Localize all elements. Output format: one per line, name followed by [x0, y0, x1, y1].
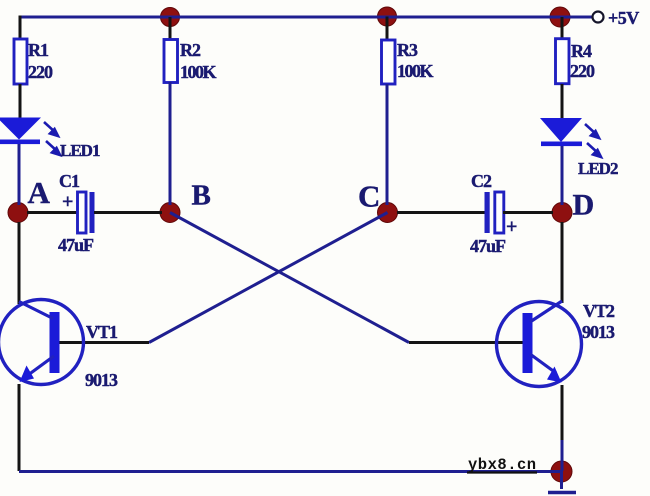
svg-text:220: 220 [570, 61, 595, 81]
wire rail to R1 [19, 16, 22, 40]
capacitor C2 negative plate [485, 192, 490, 233]
svg-text:C1: C1 [59, 171, 80, 191]
wire bottom ground rail [19, 470, 561, 473]
wire rail to R2 [169, 17, 172, 40]
wire LED2 to node D [561, 146, 564, 205]
node D dot [552, 203, 572, 223]
resistor R3 [382, 40, 396, 84]
svg-text:100K: 100K [180, 62, 217, 82]
LED1 emission arrow 1 [44, 122, 58, 136]
wire +5V stub [560, 16, 592, 19]
svg-text:B: B [192, 180, 211, 212]
svg-text:100K: 100K [397, 61, 434, 81]
ground symbol bar [548, 491, 576, 495]
transistor VT2 base bar [523, 313, 533, 373]
svg-text:+: + [62, 191, 73, 213]
wire node C to capacitor C2 [397, 211, 485, 214]
svg-text:+: + [506, 216, 517, 238]
resistor R2 [164, 40, 178, 83]
svg-text:9013: 9013 [582, 322, 615, 342]
node A dot [8, 203, 28, 223]
wire node A to capacitor C1 [27, 211, 77, 214]
capacitor C1 positive plate [78, 192, 87, 233]
node junction dot top-D [550, 7, 570, 27]
wire R1 to LED1 [19, 84, 22, 119]
svg-text:A: A [28, 175, 51, 210]
capacitor C1 negative plate [90, 192, 95, 233]
svg-text:220: 220 [28, 62, 53, 82]
capacitor C2 positive plate [495, 192, 504, 233]
node C dot [378, 203, 398, 223]
wire rail to R4 [561, 17, 564, 39]
LED2 cathode bar [541, 142, 582, 147]
wire node C cross to VT1 base diagonal [149, 213, 388, 343]
svg-text:LED1: LED1 [60, 141, 100, 160]
wire dot to ground [560, 471, 563, 489]
LED1 emission arrow 2 [46, 141, 60, 155]
LED2 diode triangle [540, 118, 582, 142]
transistor VT2 emitter line with arrow [530, 354, 562, 383]
watermark underline [467, 471, 537, 473]
svg-text:9013: 9013 [85, 370, 118, 390]
svg-text:R4: R4 [571, 41, 592, 61]
transistor VT1 emitter line with arrow [20, 356, 55, 382]
node B dot [160, 203, 180, 223]
LED2 emission arrow 1 [585, 124, 599, 138]
wire VT2 emitter to bottom rail lower [561, 440, 564, 471]
svg-text:LED2: LED2 [578, 159, 618, 178]
LED2 emission arrow 2 [587, 143, 601, 157]
transistor VT1 base bar [50, 312, 60, 373]
wire VT2 emitter to bottom rail upper [561, 385, 564, 440]
node junction dot top-C [378, 7, 397, 26]
wire node A to VT1 collector [18, 222, 21, 304]
transistor VT2 collector line [530, 301, 562, 322]
wire C1 to node B [94, 211, 162, 214]
svg-text:R2: R2 [180, 40, 201, 60]
wire top rail +5V [20, 16, 560, 19]
resistor R1 [14, 39, 27, 84]
svg-text:D: D [573, 189, 595, 222]
svg-text:C2: C2 [471, 171, 492, 191]
wire rail to R3 [386, 17, 389, 42]
svg-text:R1: R1 [28, 40, 49, 60]
svg-text:VT1: VT1 [86, 322, 118, 342]
LED1 diode triangle [0, 118, 41, 140]
svg-text:R3: R3 [397, 40, 418, 60]
wire C2 to node D [503, 211, 553, 214]
node junction dot top-B [161, 8, 180, 27]
svg-text:C: C [358, 179, 380, 214]
transistor VT2 circle [497, 302, 582, 387]
svg-text:47uF: 47uF [58, 235, 94, 255]
resistor R4 [556, 39, 570, 84]
svg-text:ybx8.cn: ybx8.cn [468, 456, 537, 474]
svg-text:+5V: +5V [608, 8, 639, 28]
wire R4 to LED2 [561, 84, 564, 120]
svg-text:VT2: VT2 [583, 301, 615, 321]
transistor VT1 collector line [19, 302, 53, 319]
wire VT1 base horizontal [59, 341, 149, 344]
svg-text:47uF: 47uF [470, 236, 506, 256]
node junction dot bottom [551, 461, 572, 482]
wire horizontal to VT2 base [409, 341, 523, 344]
terminal +5V open circle [593, 12, 604, 23]
wire R3 to node C [386, 84, 389, 205]
wire VT1 emitter to bottom rail [18, 384, 21, 471]
transistor VT1 circle [0, 300, 84, 385]
wire node B cross to VT2 base diagonal [170, 213, 409, 343]
wire R2 to node B [169, 82, 172, 205]
wire LED1 to node A [18, 144, 21, 205]
wire node D to VT2 collector [561, 222, 564, 303]
LED1 cathode bar [0, 140, 40, 145]
